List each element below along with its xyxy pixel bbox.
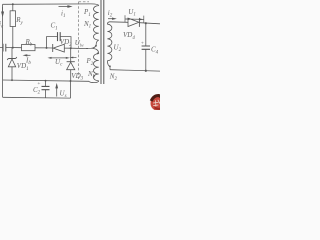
resistor Ry branch wire <box>12 4 14 11</box>
wire primary bottom lead to base line <box>86 40 99 48</box>
wire left rail <box>2 4 4 97</box>
node polarity dot feedback <box>97 53 99 55</box>
node polarity dot primary <box>95 45 97 47</box>
arrow U1 dimension double-arrow above VD4 <box>125 18 144 20</box>
arrow Uc dimension double-arrow under VD2 <box>50 57 68 59</box>
wire base line left <box>9 47 22 49</box>
node output top junction <box>145 22 147 24</box>
node VD1 at emitter rail <box>11 79 13 81</box>
arrow Ib current (points left) <box>25 54 31 56</box>
node top of Ry branch <box>12 3 14 5</box>
wire top rail <box>3 3 91 5</box>
capacitor C4 (polarized output) <box>145 23 147 46</box>
wire right side of bottom loop <box>70 81 72 98</box>
node C1/VD2 right (base node) <box>70 47 72 49</box>
wire output bottom rail <box>110 70 160 71</box>
transformer core <box>101 0 104 84</box>
wire secondary top to diode <box>110 21 129 24</box>
diode VD4 (points right) <box>128 18 139 26</box>
wire Rb to C1 node <box>35 47 47 49</box>
winding P1 primary <box>91 4 99 6</box>
svg-text:+: + <box>37 81 41 87</box>
arrow i1 current on top rail <box>59 6 71 8</box>
transformer dashed box <box>79 1 90 3</box>
diode VD3 (cathode up) base-emitter <box>70 48 72 62</box>
arrow i2 current <box>108 18 114 20</box>
diode VD2 (points left, cathode at left) on base wire <box>52 44 54 52</box>
watermark red stamp <box>151 95 166 110</box>
node C2 at emitter rail <box>45 80 47 82</box>
capacitor C1 plates <box>58 32 61 41</box>
svg-text:+: + <box>141 41 145 47</box>
arrow input current down on left rail <box>2 7 4 16</box>
wire emitter rail <box>3 80 89 81</box>
resistor Rb <box>22 45 36 51</box>
wire base node to transformer <box>71 47 88 49</box>
winding Nb feedback <box>93 49 99 54</box>
capacitor C1 branch: right riser <box>60 37 71 49</box>
node output bottom junction <box>145 70 147 72</box>
wire Ry bottom lead <box>12 27 14 48</box>
node junction Ry/base wire <box>12 47 14 49</box>
node VD3 at emitter rail <box>70 80 72 82</box>
winding N2 secondary <box>107 22 109 24</box>
node polarity dot secondary <box>109 65 111 67</box>
zener diode VD1 <box>11 48 13 59</box>
capacitor C2 (polarized) <box>45 81 47 87</box>
capacitor C3 at left edge on base wire <box>0 46 9 48</box>
resistor Ry <box>10 11 15 27</box>
capacitor C1 branch: left riser <box>47 37 58 48</box>
wire bottom rail <box>3 96 71 99</box>
arrow small on VD3 lead <box>73 57 77 59</box>
arrow Us voltage (points up) <box>56 86 58 97</box>
wire feedback bottom to emitter rail <box>89 81 99 83</box>
node C1/VD2 left <box>46 47 48 49</box>
